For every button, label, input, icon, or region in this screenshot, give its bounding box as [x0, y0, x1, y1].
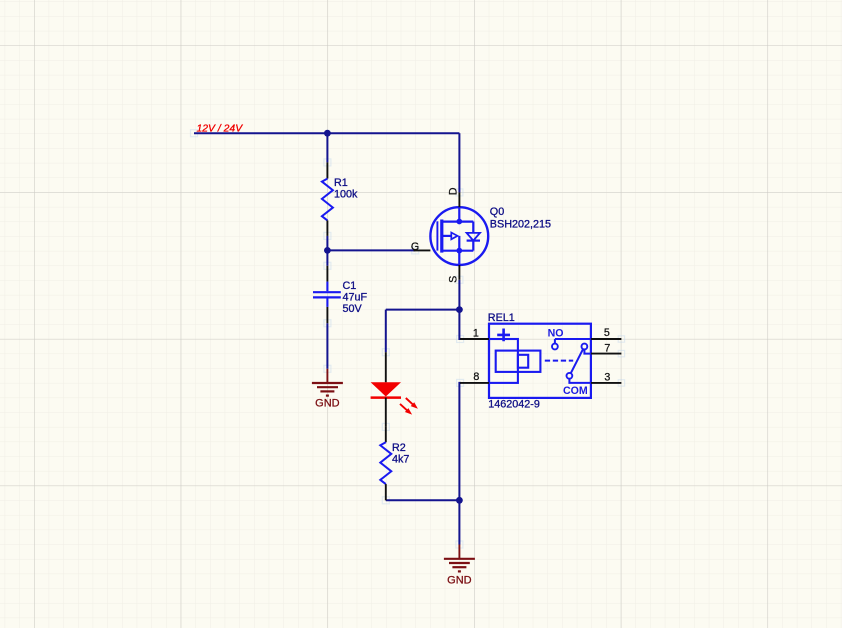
svg-text:1462042-9: 1462042-9	[488, 398, 540, 410]
coil notch	[518, 355, 528, 368]
coil rect A	[489, 339, 518, 383]
svg-text:5: 5	[604, 327, 610, 339]
svg-text:COM: COM	[563, 385, 588, 397]
wire net 12V top horizontal	[194, 132, 459, 134]
wire C1 to GND	[326, 323, 328, 369]
capacitor C1	[313, 266, 368, 323]
channel bar	[440, 220, 443, 253]
junction bottom node	[456, 497, 463, 504]
svg-text:BSH202,215: BSH202,215	[490, 219, 551, 231]
drain stub	[442, 221, 474, 223]
source stub	[442, 250, 474, 252]
coil rect B	[496, 351, 541, 372]
transistor Q0	[411, 187, 551, 283]
svg-text:NO: NO	[548, 327, 564, 339]
svg-text:100k: 100k	[334, 189, 358, 201]
wire Q0 source down	[458, 280, 460, 310]
body diode	[472, 222, 474, 233]
svg-text:4k7: 4k7	[392, 453, 409, 465]
svg-text:GND: GND	[447, 574, 472, 586]
resistor R2	[380, 427, 409, 500]
pin7 contact	[582, 344, 588, 350]
resistor R1	[322, 162, 358, 236]
svg-text:50V: 50V	[343, 303, 363, 315]
svg-text:R2: R2	[392, 442, 406, 454]
pin 3	[591, 382, 622, 384]
svg-text:1: 1	[473, 327, 479, 339]
LED D1	[371, 352, 418, 427]
source lead	[458, 251, 460, 265]
node dot source	[456, 248, 462, 254]
wire down to GND2	[458, 500, 460, 544]
svg-text:3: 3	[604, 371, 610, 383]
pin 8	[460, 382, 489, 384]
pin D	[458, 192, 460, 207]
svg-text:D: D	[447, 187, 459, 195]
NO contact	[555, 339, 591, 344]
svg-text:S: S	[447, 276, 459, 283]
gate plate	[436, 221, 438, 250]
body stub with arrow	[442, 235, 452, 237]
relay REL1	[460, 312, 621, 410]
junction source node	[456, 306, 463, 313]
wire source node horizontal to LED branch	[386, 309, 460, 311]
ground GND1	[312, 369, 343, 410]
wire 12V down to Q0 drain	[458, 133, 460, 192]
svg-text:GND: GND	[315, 398, 340, 410]
wire relay pin 8 down	[459, 383, 461, 500]
svg-text:REL1: REL1	[488, 312, 515, 324]
wire 12V down to R1	[326, 133, 328, 162]
pin S	[458, 265, 460, 280]
svg-text:R1: R1	[334, 177, 348, 189]
wire LED branch down	[385, 310, 387, 353]
wire gate horizontal	[327, 249, 415, 251]
junction gate / R1-C1	[324, 247, 331, 254]
svg-text:C1: C1	[343, 280, 357, 292]
svg-text:47uF: 47uF	[343, 292, 368, 304]
wire R2 bottom horizontal	[386, 499, 460, 501]
pin end markers	[191, 130, 625, 548]
node dot drain	[456, 219, 462, 225]
pin G	[414, 249, 431, 251]
pin 7	[591, 353, 622, 355]
pin 5	[591, 338, 622, 340]
pin 1	[460, 338, 489, 340]
junction top wire / R1	[324, 130, 331, 137]
plus	[497, 329, 510, 342]
svg-text:7: 7	[604, 342, 610, 354]
switch arm	[571, 349, 583, 373]
wire down to relay pin 1	[459, 310, 461, 339]
svg-text:Q0: Q0	[490, 206, 504, 218]
svg-text:G: G	[411, 241, 419, 253]
dashed actuator line	[545, 360, 573, 362]
COM contact	[567, 373, 573, 379]
ground GND2	[444, 545, 475, 587]
svg-text:8: 8	[473, 371, 479, 383]
wire R1 bottom to C1	[326, 236, 328, 266]
drain lead	[458, 207, 460, 221]
